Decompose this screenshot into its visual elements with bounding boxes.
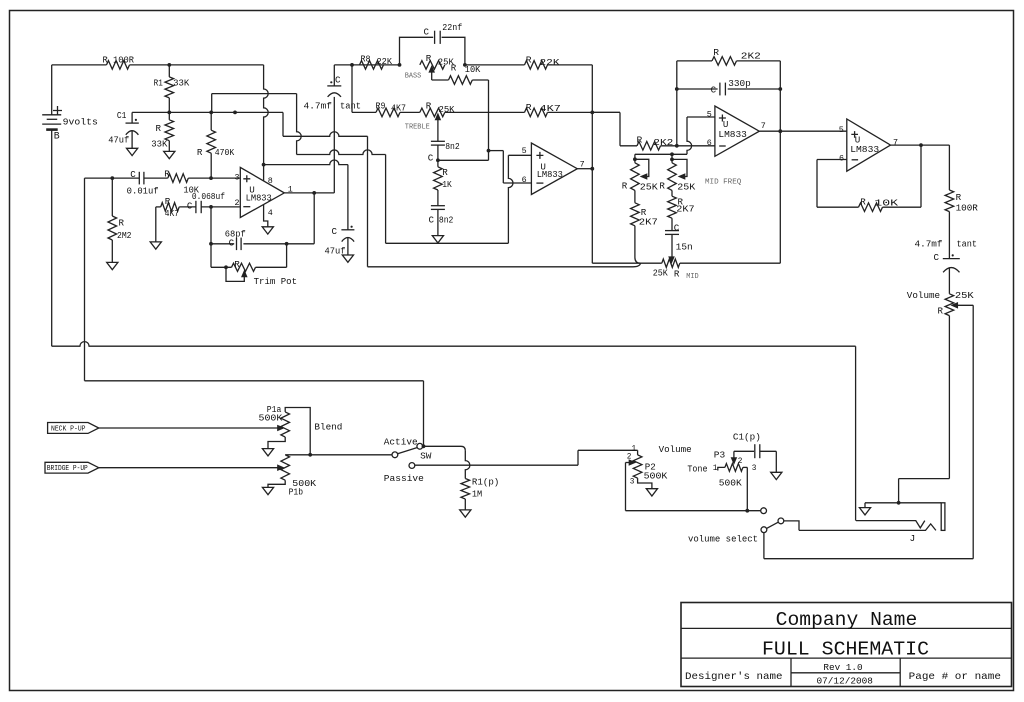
svg-text:15n: 15n	[676, 242, 693, 253]
svg-text:R1(p): R1(p)	[472, 477, 499, 488]
svg-text:R 100R: R 100R	[103, 56, 135, 66]
svg-text:tant: tant	[340, 101, 361, 111]
svg-text:C: C	[130, 169, 136, 180]
svg-text:LM833: LM833	[537, 169, 563, 180]
svg-text:3: 3	[630, 478, 635, 486]
svg-text:1: 1	[632, 446, 637, 454]
svg-text:B: B	[54, 131, 60, 142]
svg-text:MID: MID	[686, 273, 699, 281]
svg-text:1M: 1M	[472, 489, 482, 500]
svg-text:6: 6	[522, 175, 527, 185]
svg-text:MID FREQ: MID FREQ	[705, 179, 742, 187]
svg-text:22nf: 22nf	[442, 22, 462, 33]
svg-text:LM833: LM833	[718, 129, 747, 140]
svg-text:2: 2	[235, 198, 240, 208]
svg-text:1K: 1K	[442, 179, 452, 190]
svg-text:C: C	[429, 214, 435, 225]
svg-text:25K: 25K	[640, 182, 659, 193]
svg-text:500K: 500K	[644, 470, 668, 481]
svg-text:P3: P3	[714, 450, 725, 461]
svg-text:Volume: Volume	[907, 290, 940, 301]
svg-text:LM833: LM833	[246, 192, 272, 203]
svg-text:25K: 25K	[677, 182, 696, 193]
svg-text:7: 7	[761, 121, 766, 131]
svg-text:SW: SW	[420, 450, 432, 461]
svg-text:R: R	[938, 305, 944, 316]
svg-text:5: 5	[522, 146, 527, 156]
svg-text:R: R	[526, 102, 532, 113]
svg-text:R: R	[197, 147, 203, 158]
svg-text:1: 1	[713, 465, 718, 473]
svg-text:10K: 10K	[874, 197, 898, 208]
svg-text:NECK P-UP: NECK P-UP	[51, 426, 86, 434]
svg-text:6: 6	[839, 153, 844, 163]
svg-text:8n2: 8n2	[439, 214, 454, 225]
svg-text:6: 6	[707, 138, 712, 148]
svg-text:Company Name: Company Name	[776, 609, 918, 631]
svg-text:100R: 100R	[956, 203, 979, 214]
svg-text:0.01uf: 0.01uf	[127, 186, 159, 196]
svg-text:C: C	[229, 238, 235, 249]
svg-text:C: C	[332, 226, 338, 237]
svg-text:07/12/2008: 07/12/2008	[817, 675, 874, 686]
svg-text:R8: R8	[361, 53, 371, 64]
svg-text:25K: 25K	[439, 104, 455, 115]
svg-text:C: C	[428, 153, 434, 164]
svg-text:Active: Active	[384, 437, 418, 448]
svg-text:R: R	[442, 167, 448, 178]
svg-text:BASS: BASS	[405, 72, 422, 80]
svg-text:4.7mf: 4.7mf	[304, 101, 333, 111]
svg-text:J: J	[910, 533, 916, 544]
svg-text:Volume: Volume	[659, 444, 692, 455]
svg-text:R: R	[674, 268, 680, 279]
svg-text:C: C	[934, 252, 940, 263]
svg-text:7: 7	[893, 137, 898, 147]
svg-text:R: R	[234, 259, 240, 270]
svg-text:Tone: Tone	[687, 463, 707, 474]
svg-text:R: R	[156, 123, 162, 134]
svg-text:R1: R1	[154, 77, 164, 88]
svg-text:4K7: 4K7	[165, 208, 179, 219]
svg-text:C1: C1	[117, 110, 127, 121]
svg-text:4: 4	[268, 208, 273, 218]
svg-text:Blend: Blend	[314, 422, 342, 433]
svg-text:C1(p): C1(p)	[733, 431, 761, 442]
svg-text:2K2: 2K2	[741, 51, 761, 62]
svg-text:22K: 22K	[377, 56, 393, 67]
svg-text:470K: 470K	[215, 147, 235, 158]
svg-text:3: 3	[235, 172, 240, 182]
svg-text:FULL SCHEMATIC: FULL SCHEMATIC	[762, 638, 929, 660]
svg-text:4K7: 4K7	[391, 103, 406, 114]
svg-text:C: C	[335, 75, 341, 86]
svg-text:R: R	[659, 181, 665, 192]
svg-text:R: R	[860, 196, 866, 207]
svg-text:Designer's name: Designer's name	[685, 671, 783, 683]
svg-text:R: R	[451, 62, 457, 73]
svg-text:TREBLE: TREBLE	[405, 124, 430, 132]
svg-text:R: R	[165, 196, 171, 207]
svg-text:LM833: LM833	[850, 144, 879, 155]
svg-text:47uf: 47uf	[325, 245, 346, 256]
svg-text:3: 3	[752, 465, 757, 473]
svg-text:500K: 500K	[719, 478, 742, 489]
svg-text:5: 5	[839, 125, 844, 135]
svg-text:C: C	[711, 84, 717, 95]
svg-text:R: R	[956, 192, 962, 203]
svg-text:P1b: P1b	[289, 487, 304, 498]
svg-text:2K7: 2K7	[676, 204, 694, 215]
svg-text:47uf: 47uf	[108, 134, 129, 145]
svg-text:500K: 500K	[259, 413, 283, 424]
svg-text:2M2: 2M2	[117, 230, 132, 241]
svg-text:8n2: 8n2	[445, 141, 460, 152]
svg-text:Rev 1.0: Rev 1.0	[823, 662, 863, 673]
svg-text:4.7mf: 4.7mf	[915, 238, 943, 249]
svg-text:2K7: 2K7	[639, 217, 658, 228]
svg-text:R: R	[119, 218, 125, 229]
svg-text:Trim Pot: Trim Pot	[254, 276, 297, 287]
svg-text:25K: 25K	[955, 290, 974, 301]
svg-text:C: C	[424, 26, 430, 37]
svg-text:R: R	[426, 101, 432, 112]
svg-text:R: R	[426, 53, 432, 64]
svg-text:330p: 330p	[728, 78, 751, 89]
svg-text:BRIDGE P-UP: BRIDGE P-UP	[47, 465, 88, 473]
svg-text:R: R	[164, 169, 170, 180]
svg-text:33K: 33K	[151, 138, 168, 149]
svg-text:25K: 25K	[653, 267, 668, 278]
svg-text:R: R	[637, 134, 643, 145]
svg-text:R: R	[713, 47, 719, 58]
svg-text:tant: tant	[957, 238, 978, 249]
svg-text:Page # or name: Page # or name	[909, 671, 1001, 683]
svg-text:2K2: 2K2	[653, 137, 673, 148]
svg-text:R9: R9	[376, 100, 386, 111]
svg-text:volume select: volume select	[688, 534, 758, 545]
svg-text:R: R	[622, 181, 628, 192]
svg-text:C: C	[674, 223, 680, 234]
svg-text:4K7: 4K7	[540, 103, 561, 114]
svg-text:5: 5	[707, 109, 712, 119]
svg-text:9volts: 9volts	[63, 116, 98, 127]
svg-text:0.068uf: 0.068uf	[192, 192, 225, 202]
svg-text:33K: 33K	[173, 77, 190, 88]
svg-text:Passive: Passive	[384, 473, 424, 484]
